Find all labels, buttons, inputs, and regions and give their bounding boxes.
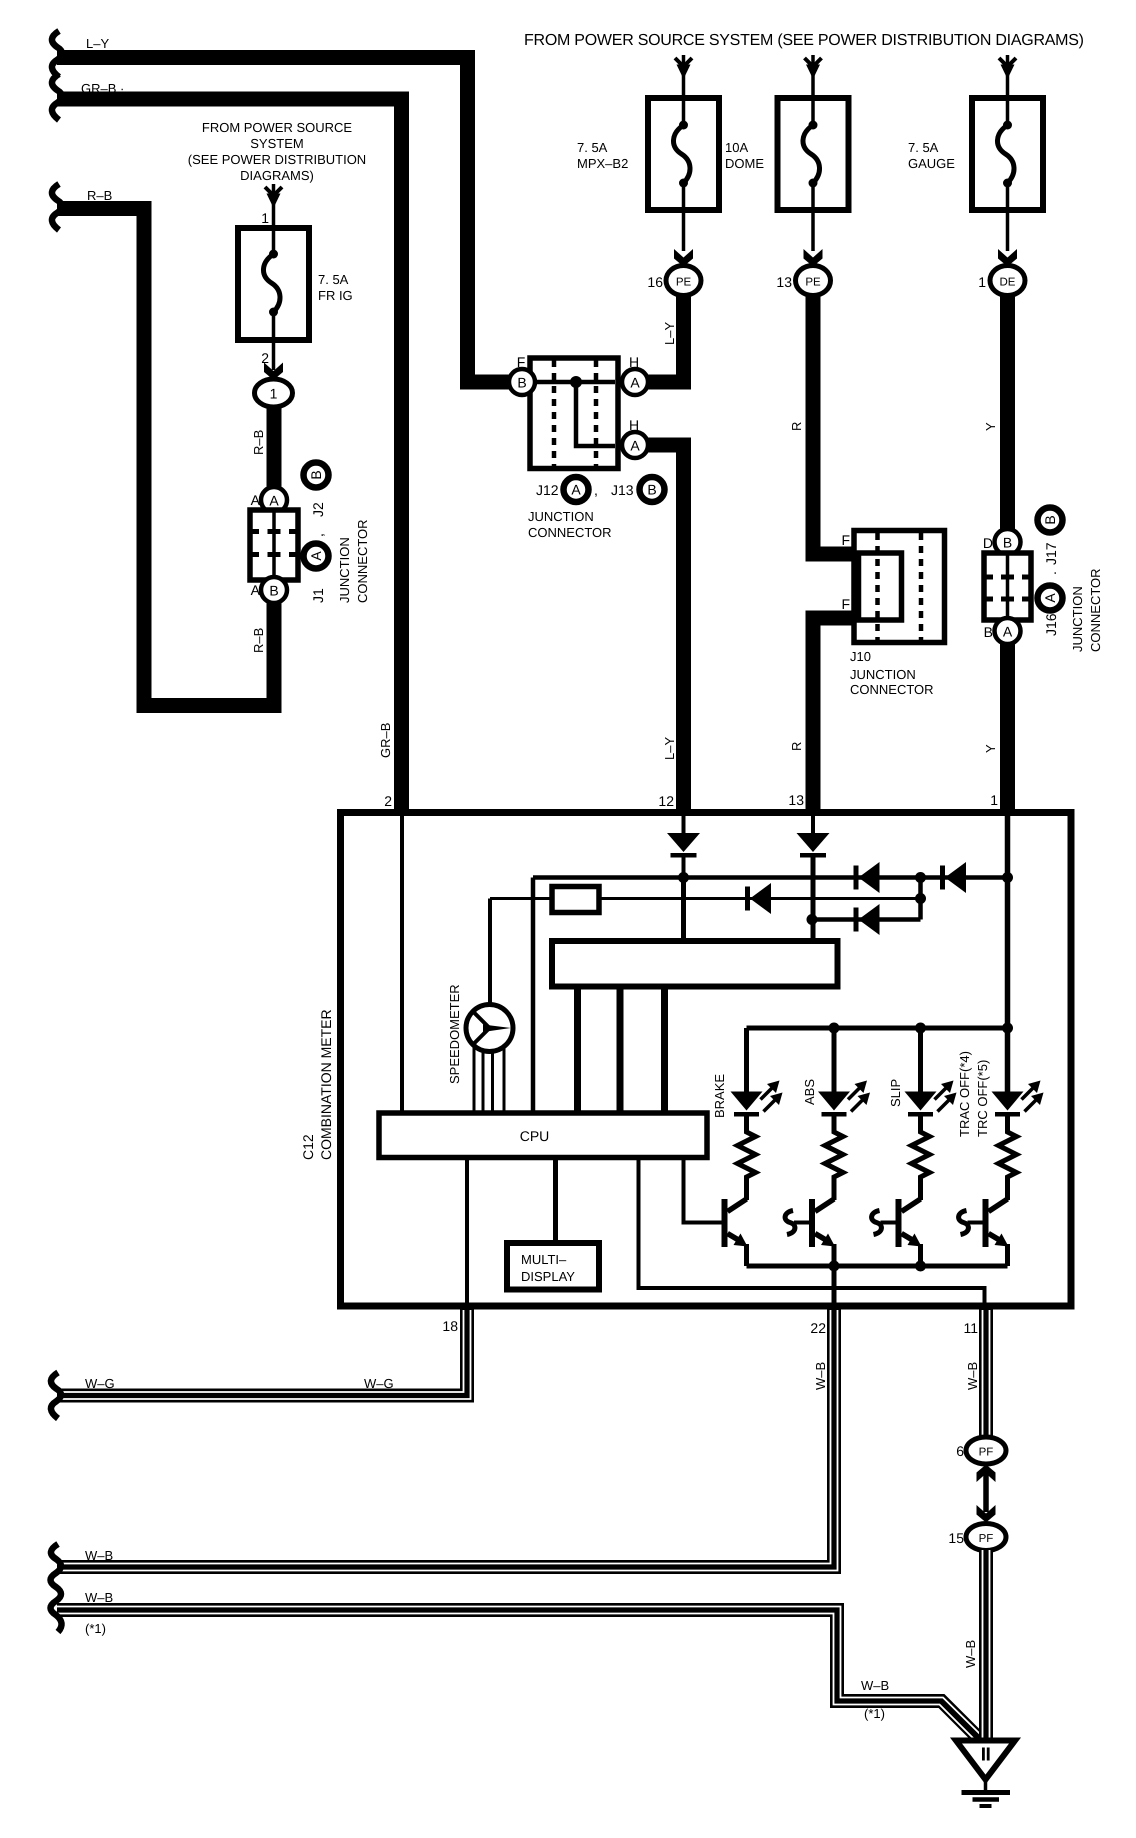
svg-text:ABS: ABS [802, 1079, 817, 1105]
wire speedometer riser [488, 899, 492, 1006]
svg-text:J13: J13 [611, 482, 634, 498]
wire bus riser 1 [574, 987, 581, 1114]
svg-text:L–Y: L–Y [662, 737, 677, 760]
wire CPU to pin 11 [639, 1158, 985, 1310]
svg-text:12: 12 [658, 793, 674, 809]
continuation arrow into fuse FR IG [272, 184, 276, 228]
svg-text:J2: J2 [310, 502, 326, 517]
arrow into oval 16 PE [674, 249, 693, 267]
wire R J10 pin F lower to meter pin 13 [813, 618, 856, 812]
svg-text:W–B: W–B [813, 1362, 828, 1390]
svg-text:F: F [841, 596, 850, 612]
svg-text:R–B: R–B [251, 628, 266, 653]
svg-text:1: 1 [978, 274, 986, 290]
wire W-B pin 22 to left break [57, 1310, 838, 1571]
diode D2 on line1 [854, 862, 880, 893]
wire R-B oval to J1 pin A [267, 407, 282, 488]
break W-G [51, 1373, 61, 1419]
svg-text:(*1): (*1) [85, 1621, 106, 1636]
connector oval 1 [255, 379, 293, 407]
LED TRAC/TRC OFF [992, 1081, 1044, 1117]
diode D3 on line1 right [940, 862, 966, 893]
label J12 (A) , J13 (B) [536, 477, 665, 502]
svg-text:W–B: W–B [85, 1590, 113, 1605]
break GR-B [52, 74, 62, 120]
resistor R5 TRAC [999, 1117, 1017, 1201]
wire W-B pin 11 to connector 6 PF [983, 1310, 990, 1439]
svg-text:B: B [1042, 515, 1058, 524]
svg-text:CONNECTOR: CONNECTOR [528, 525, 612, 540]
svg-text:J17: J17 [1043, 542, 1059, 565]
wire line3 [812, 917, 921, 922]
svg-text:7. 5A: 7. 5A [577, 140, 608, 155]
multi-display box [507, 1243, 599, 1290]
svg-text:A: A [251, 492, 261, 508]
transistor Q1 [722, 1199, 748, 1266]
svg-text:J16: J16 [1043, 613, 1059, 636]
junction connector J16/J17 box [984, 553, 1031, 620]
svg-text:R: R [789, 742, 804, 751]
svg-text:CONNECTOR: CONNECTOR [850, 682, 934, 697]
svg-text:B: B [647, 482, 656, 498]
svg-text:J10: J10 [850, 649, 871, 664]
svg-text:1: 1 [990, 792, 998, 808]
svg-text:TRC OFF(*5): TRC OFF(*5) [975, 1060, 990, 1137]
node dot line3 on pin13 wire [807, 914, 818, 925]
svg-text:A: A [630, 438, 640, 454]
wire line2 resistor to node [599, 897, 921, 900]
break R-B [52, 184, 62, 230]
svg-text:JUNCTION: JUNCTION [528, 509, 594, 524]
junction connector J10 box [854, 531, 945, 643]
break W-B pair [51, 1544, 62, 1632]
svg-text:1: 1 [270, 386, 278, 402]
node dot rail ABS [829, 1023, 840, 1034]
svg-text:2: 2 [384, 793, 392, 809]
wire node to bus box top [681, 878, 686, 942]
svg-text:10A: 10A [725, 140, 748, 155]
wire GR-B horizontal/vertical to pin 2 [57, 99, 402, 812]
svg-text:W–B: W–B [85, 1548, 113, 1563]
svg-text:(*1): (*1) [864, 1706, 885, 1721]
wire CPU to multi-display [553, 1158, 558, 1244]
wire pin 13 to diode [811, 816, 815, 833]
LED ABS [818, 1081, 870, 1117]
svg-text:FR IG: FR IG [318, 288, 353, 303]
svg-text:BRAKE: BRAKE [712, 1074, 727, 1118]
svg-text:GR–B: GR–B [378, 723, 393, 758]
svg-text:.: . [1043, 571, 1059, 575]
pin A circle right bottom [622, 432, 648, 458]
svg-text:16: 16 [647, 274, 663, 290]
wire fuse to oval [1006, 210, 1010, 251]
junction connector J12/J13 box [530, 358, 618, 469]
svg-text:B: B [269, 583, 278, 599]
svg-text:F: F [517, 354, 526, 370]
svg-text:,: , [594, 482, 598, 498]
LED BRAKE [731, 1081, 783, 1117]
svg-text:W–B: W–B [963, 1640, 978, 1668]
wire W-B (*1) lower [57, 1607, 981, 1742]
arrow up to 6 PF [977, 1465, 996, 1483]
svg-text:A: A [251, 582, 261, 598]
svg-text:A: A [308, 551, 324, 561]
fuse 10A DOME [778, 98, 849, 210]
svg-text:W–G: W–G [85, 1376, 115, 1391]
wire BRAKE LED feed [744, 1028, 749, 1092]
svg-text:DISPLAY: DISPLAY [521, 1269, 575, 1284]
svg-text:DE: DE [1000, 277, 1016, 289]
svg-text:FROM POWER SOURCE SYSTEM (SEE: FROM POWER SOURCE SYSTEM (SEE POWER DIST… [524, 32, 1084, 49]
connector oval 13 PE [796, 266, 831, 296]
wire L-Y horizontal/vertical from left break to J12 pin B [57, 58, 512, 383]
wire L-Y oval to J12 pin A [646, 295, 684, 382]
wire SLIP LED feed [918, 1028, 923, 1092]
svg-text:11: 11 [963, 1320, 978, 1336]
diode D5 below pin 13 [797, 833, 830, 858]
pin A circle top [261, 487, 287, 513]
svg-text:F: F [841, 532, 850, 548]
resistor R4 SLIP [912, 1117, 930, 1201]
connector oval 16 PE [666, 266, 701, 296]
connector oval 15 PF [966, 1524, 1006, 1551]
label J16 (A) . J17 (B) rotated [1038, 508, 1063, 637]
svg-text:CONNECTOR: CONNECTOR [355, 519, 370, 603]
svg-text:DOME: DOME [725, 156, 764, 171]
wire rail to pin 22 [832, 1266, 837, 1309]
node dot rail SLIP emitter [915, 1261, 926, 1272]
svg-text:DIAGRAMS): DIAGRAMS) [240, 168, 314, 183]
CPU box [379, 1113, 707, 1158]
svg-text:A: A [1042, 593, 1058, 603]
arrow into oval 1 DE [998, 249, 1017, 267]
svg-text:PE: PE [676, 277, 692, 289]
svg-text:A: A [630, 375, 640, 391]
wire CPU to pin 18 [465, 1158, 469, 1310]
svg-text:JUNCTION: JUNCTION [1070, 586, 1085, 652]
svg-text:Y: Y [983, 744, 998, 753]
svg-text:W–G: W–G [364, 1376, 394, 1391]
wire Y J16 pin A to meter pin 1 [1000, 644, 1015, 812]
wire bus riser 2 [617, 987, 624, 1114]
wire fuse to oval [811, 210, 815, 251]
node dot rail TRAC [1002, 1023, 1013, 1034]
svg-text:,: , [310, 533, 326, 537]
wire line1 horizontal [533, 875, 1008, 880]
svg-text:B: B [308, 470, 324, 479]
svg-text:A: A [269, 493, 279, 509]
wire pin 2 riser to CPU [400, 816, 404, 1113]
transistor Q2 [785, 1199, 835, 1266]
svg-text:MPX–B2: MPX–B2 [577, 156, 628, 171]
svg-text:JUNCTION: JUNCTION [850, 667, 916, 682]
speedometer output wires [474, 1045, 504, 1113]
diode D6 on line2 [745, 883, 771, 914]
pin B circle left [509, 369, 535, 395]
pin A circle bottom [995, 618, 1021, 644]
wire ABS LED feed [832, 1028, 837, 1092]
wire L-Y J12 pin A lower to meter pin 12 [648, 445, 684, 812]
svg-text:JUNCTION: JUNCTION [337, 537, 352, 603]
fuse 7.5A MPX-B2 [648, 98, 719, 210]
wire R oval to J10 pin F upper [813, 295, 856, 554]
wire LED supply rail [747, 1026, 1008, 1031]
svg-text:PE: PE [805, 277, 821, 289]
svg-text:W–B: W–B [965, 1362, 980, 1390]
svg-text:SLIP: SLIP [888, 1079, 903, 1107]
svg-text:SYSTEM: SYSTEM [250, 136, 303, 151]
svg-text:C12: C12 [300, 1134, 316, 1160]
svg-text:6: 6 [956, 1443, 964, 1459]
svg-text:CPU: CPU [520, 1128, 550, 1144]
wire R-B horizontal/down/right/up loop to J1 pin B [57, 209, 274, 706]
svg-text:R: R [789, 422, 804, 431]
wire between PF connectors [983, 1470, 989, 1512]
bus bar box [552, 941, 838, 987]
svg-text:PF: PF [979, 1447, 994, 1459]
resistor R3 ABS [825, 1117, 843, 1201]
svg-text:1: 1 [261, 210, 269, 226]
pin B circle bottom [261, 577, 287, 603]
svg-text:PF: PF [979, 1533, 994, 1545]
combination meter box [341, 813, 1072, 1307]
speedometer [466, 1005, 513, 1052]
svg-text:R–B: R–B [87, 188, 112, 203]
svg-text:FROM POWER SOURCE: FROM POWER SOURCE [202, 120, 353, 135]
svg-text:B: B [1003, 535, 1012, 551]
wire CPU to Q1 base [684, 1158, 723, 1223]
svg-text:7. 5A: 7. 5A [908, 140, 939, 155]
svg-text:Y: Y [983, 422, 998, 431]
svg-text:H: H [629, 354, 639, 370]
svg-text:H: H [629, 417, 639, 433]
svg-text:CONNECTOR: CONNECTOR [1088, 568, 1103, 652]
node dot rail SLIP [915, 1023, 926, 1034]
wire line2 speedometer branch [490, 897, 552, 900]
svg-text:MULTI–: MULTI– [521, 1252, 567, 1267]
svg-text:D: D [983, 535, 993, 551]
arrow into oval 1 [264, 363, 283, 381]
wire fuse to oval [682, 210, 686, 251]
svg-text:GAUGE: GAUGE [908, 156, 955, 171]
wire W-B 15 PF to ground [983, 1550, 990, 1740]
wire pin 12 to diode [682, 816, 686, 833]
ground symbol II [956, 1741, 1015, 1807]
svg-text:7. 5A: 7. 5A [318, 272, 349, 287]
svg-text:J1: J1 [310, 588, 326, 603]
node dot line1 mid [915, 872, 926, 883]
node dot rail pin22 [829, 1261, 840, 1272]
svg-text:15: 15 [948, 1530, 964, 1546]
junction connector J1/J2 box [250, 510, 298, 580]
wire diode to bus box [811, 857, 816, 941]
fuse FR IG [238, 228, 309, 340]
diode D4 on line3 [854, 904, 880, 935]
svg-text:COMBINATION METER: COMBINATION METER [318, 1009, 334, 1160]
diode D1 below pin 12 [667, 833, 700, 858]
continuation arrow [1006, 55, 1010, 98]
svg-text:W–B: W–B [861, 1678, 889, 1693]
connector oval 6 PF [966, 1437, 1006, 1464]
resistor R2 BRAKE [738, 1117, 756, 1201]
LED SLIP [905, 1081, 957, 1117]
svg-text:L–Y: L–Y [662, 322, 677, 345]
wire W-G pin 18 to left break [57, 1310, 471, 1400]
svg-text:GR–B ·: GR–B · [81, 81, 124, 96]
svg-text:13: 13 [788, 792, 804, 808]
svg-text:R–B: R–B [251, 430, 266, 455]
wire vertical linking line1 line2 line3 [918, 878, 923, 920]
svg-text:B: B [984, 624, 993, 640]
wire Y oval to J16 pin B [1000, 295, 1015, 530]
svg-text:SPEEDOMETER: SPEEDOMETER [447, 984, 462, 1084]
transistor Q4 [959, 1199, 1009, 1266]
svg-text:13: 13 [776, 274, 792, 290]
svg-text:(SEE POWER DISTRIBUTION: (SEE POWER DISTRIBUTION [188, 152, 366, 167]
svg-text:18: 18 [442, 1318, 458, 1334]
node dot line1/pin12 [678, 872, 689, 883]
svg-text:A: A [1003, 624, 1013, 640]
pin A circle right top [622, 369, 648, 395]
node dot line2 right [915, 893, 926, 904]
svg-text:L–Y: L–Y [86, 36, 109, 51]
wire pin 1 vertical [1005, 816, 1011, 1092]
wire emitter rail [747, 1264, 1008, 1269]
break L-Y [52, 31, 62, 77]
wire diode to node [682, 857, 686, 878]
pin B circle top [995, 529, 1021, 555]
continuation arrow [811, 55, 815, 98]
arrow into oval 13 PE [804, 249, 823, 267]
fuse 7.5A GAUGE [972, 98, 1043, 210]
node dot line1 right on pin1 wire [1002, 872, 1013, 883]
svg-text:B: B [517, 375, 526, 391]
svg-text:TRAC OFF(*4): TRAC OFF(*4) [957, 1051, 972, 1137]
svg-text:A: A [571, 482, 581, 498]
label J1 (A) , J2 (B) rotated [304, 463, 329, 604]
svg-text:22: 22 [810, 1320, 826, 1336]
arrow down to 15 PF [977, 1505, 996, 1523]
wire fuse to connector oval [272, 340, 276, 370]
wire line1 left riser to CPU [531, 878, 536, 1114]
connector oval 1 DE [990, 266, 1025, 296]
resistor R1 box [552, 887, 599, 913]
transistor Q3 [872, 1199, 922, 1266]
svg-text:J12: J12 [536, 482, 559, 498]
wire bus riser 3 [661, 987, 668, 1114]
continuation arrow [682, 55, 686, 98]
